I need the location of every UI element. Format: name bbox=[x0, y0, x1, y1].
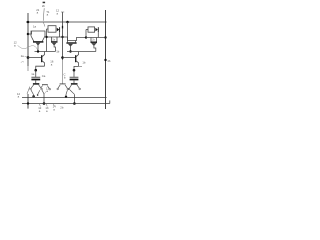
transistor Q1a bar bbox=[51, 41, 58, 43]
transistor Q3a collector circle bbox=[41, 88, 43, 90]
svg-text:1b: 1b bbox=[56, 50, 60, 54]
wire T2b emitter to cap node bbox=[74, 66, 79, 70]
wire left bottom vertical bbox=[27, 94, 29, 109]
svg-text:Ca: Ca bbox=[42, 74, 46, 78]
transistor Q4b base bar bbox=[71, 83, 78, 85]
wire box R1b left lead bbox=[86, 29, 88, 31]
transistor T2b bar bbox=[75, 55, 77, 62]
node junction dot Q3b rail1 bbox=[65, 96, 67, 98]
node junction dot A1 bbox=[27, 33, 30, 36]
node junction dot cap C1b top bbox=[73, 69, 76, 72]
svg-text:a: a bbox=[53, 109, 55, 112]
node junction dot right bus mid bbox=[104, 59, 106, 61]
wire diode drop bbox=[59, 32, 61, 37]
svg-text:a: a bbox=[57, 13, 59, 16]
transistor Q3b emitter circle bbox=[57, 88, 59, 90]
wire Q3a inner slant bbox=[38, 90, 40, 94]
svg-text:a: a bbox=[47, 14, 49, 17]
wire rail feed down bbox=[67, 22, 69, 41]
transistor Q3b collector slant bbox=[65, 85, 67, 89]
node junction dot center bus W bbox=[61, 36, 63, 38]
svg-text:2b: 2b bbox=[60, 106, 64, 110]
wire base line T2a bbox=[28, 57, 41, 59]
label leader ticks bottom bbox=[39, 104, 40, 106]
diode D1b bar bbox=[97, 27, 99, 32]
transistor Q4b right slant bbox=[77, 85, 79, 88]
transistor T1a emitter slant bbox=[42, 36, 45, 41]
svg-text:2b: 2b bbox=[92, 37, 95, 41]
transistor Q4a left slant bbox=[41, 86, 43, 89]
transistor Q3b emitter slant bbox=[58, 85, 60, 88]
wire base line T2b bbox=[63, 57, 76, 59]
transistor T1a mirror top loop bbox=[31, 31, 45, 36]
wire bottom rail 2 bbox=[22, 103, 110, 105]
label wavy leader to node bbox=[18, 45, 38, 50]
node junction dot W1 left bbox=[45, 36, 47, 38]
wire T1b emitter lead bbox=[70, 46, 72, 51]
transistor Q4a base bar bbox=[42, 84, 48, 86]
transistor T1a collector slant bbox=[31, 36, 34, 41]
wire cap C1b upper lead bbox=[73, 70, 75, 77]
node junction dot top rail right feed bbox=[66, 21, 69, 24]
node junction dot left bottom bbox=[27, 102, 29, 104]
tick top of center bus bbox=[61, 11, 64, 13]
node junction dot right bus W bbox=[104, 36, 106, 38]
wire mid rail A bbox=[35, 51, 56, 53]
wire Q3a lower slant to rail bbox=[31, 90, 34, 95]
label leader top bbox=[43, 8, 44, 21]
diode D1a bar bbox=[59, 27, 61, 32]
wire Q1b emitter hook bbox=[94, 46, 96, 52]
label tilde small left bbox=[21, 61, 24, 64]
transistor Q4a right slant bbox=[47, 86, 49, 89]
svg-text:2a: 2a bbox=[52, 37, 55, 41]
transistor Q1a legs bbox=[51, 37, 53, 41]
node junction dot T1b emitter bbox=[69, 50, 71, 52]
label tilde to B1 bbox=[25, 55, 28, 58]
wire W1 node line bbox=[47, 36, 63, 38]
node junction dot left bus / rail bbox=[27, 21, 30, 24]
wire Q4a vertical to rail2 bbox=[43, 94, 45, 104]
svg-text:a: a bbox=[18, 96, 20, 99]
node tick on center bus bbox=[62, 26, 64, 29]
wire cap C1b lower lead bbox=[73, 80, 75, 83]
transistor Q4b left slant bbox=[69, 85, 71, 88]
wire T1a feed from left bus bbox=[28, 31, 32, 34]
wire box R1b left drop bbox=[85, 30, 87, 38]
wire center vertical bus bbox=[62, 12, 64, 60]
svg-text:4b: 4b bbox=[107, 59, 111, 63]
transistor Q3a base bar bbox=[33, 83, 39, 85]
label tilde QB bbox=[44, 91, 46, 94]
node junction dot B1 bbox=[27, 56, 30, 59]
capacitor C1a plate 2 bbox=[31, 79, 40, 81]
wire left vertical bus bbox=[27, 13, 29, 66]
transistor T1a base bar bbox=[33, 41, 43, 43]
node junction dot Q4b rail2 bbox=[73, 102, 76, 105]
wire T1a emitter lead bbox=[37, 45, 39, 51]
svg-text:a: a bbox=[47, 90, 49, 93]
node junction dot W2 bbox=[85, 36, 87, 38]
transistor Q3b base bar bbox=[60, 83, 66, 85]
transistor Q3b collector circle bbox=[67, 88, 69, 90]
wire rail 2 end hook bbox=[109, 100, 111, 103]
resistor box R1b bbox=[88, 27, 95, 32]
label FIG mark bbox=[43, 2, 46, 4]
capacitor C1b plate 1 bbox=[70, 76, 79, 78]
svg-text:a: a bbox=[14, 45, 16, 48]
transistor T2b emitter slant bbox=[76, 61, 78, 67]
capacitor C1b plate 2 bbox=[70, 79, 79, 81]
transistor Q3a emitter circle bbox=[30, 88, 32, 90]
wire bottom rail 1 bbox=[22, 97, 107, 99]
transistor Q4a right circle bbox=[49, 88, 51, 90]
transistor Q1b legs bbox=[90, 38, 92, 42]
wire box left drop bbox=[46, 29, 48, 52]
transistor T1b arrow bbox=[69, 44, 73, 46]
svg-text:2b: 2b bbox=[42, 4, 46, 8]
transistor T1a arrow bbox=[36, 43, 40, 45]
svg-text:a: a bbox=[39, 110, 41, 113]
wire Q4a lead slant bbox=[42, 90, 44, 94]
resistor box R1a bbox=[48, 26, 56, 33]
transistor Q1b arrow bbox=[92, 43, 96, 45]
svg-text:1a: 1a bbox=[33, 25, 37, 29]
svg-text:a: a bbox=[51, 63, 53, 66]
transistor T2a bar bbox=[41, 55, 43, 62]
wire top supply rail bbox=[26, 21, 107, 23]
svg-text:1a: 1a bbox=[21, 54, 25, 58]
node junction dot Q4a rail2 bbox=[43, 102, 46, 105]
svg-text:b: b bbox=[64, 76, 66, 80]
wire W2 right bbox=[86, 37, 106, 39]
wire T2a emitter to cap node bbox=[36, 66, 45, 70]
wire Q4b lower slant bbox=[70, 90, 74, 94]
node junction dot center bus base bbox=[61, 56, 64, 59]
svg-text:1a: 1a bbox=[31, 72, 35, 76]
svg-text:a: a bbox=[46, 110, 48, 113]
diode D1b arrow bbox=[95, 28, 97, 32]
svg-text:a: a bbox=[37, 12, 39, 15]
transistor T2b collector lead bbox=[76, 52, 78, 57]
capacitor C1a plate 1 bbox=[31, 76, 40, 78]
wire right vertical bus bbox=[105, 10, 107, 109]
wire label stub right bbox=[79, 65, 83, 67]
transistor Q1b bar bbox=[91, 41, 98, 43]
transistor T2a collector slant bbox=[42, 52, 44, 57]
transistor T1b legs bbox=[67, 41, 69, 43]
wire D1b drop bbox=[97, 32, 99, 38]
wire label leader 12a bbox=[27, 87, 30, 94]
transistor Q1a arrow bbox=[52, 43, 56, 45]
transistor Q3a emitter slant bbox=[31, 85, 34, 89]
label leader below rail bbox=[43, 22, 45, 27]
wire Q4b vertical to rail2 bbox=[73, 94, 75, 103]
node junction dot cap C1a top bbox=[34, 69, 37, 72]
node junction dot on rail1 bbox=[32, 95, 35, 98]
wire cap C1a lower lead bbox=[35, 80, 37, 83]
transistor Q3a collector slant bbox=[39, 85, 42, 89]
transistor T2a emitter slant bbox=[42, 61, 44, 66]
svg-text:1b: 1b bbox=[82, 61, 86, 65]
wire Q1a emitter lead bbox=[54, 45, 55, 51]
wire cap C1a upper lead bbox=[35, 70, 37, 77]
wire box left lead bbox=[47, 28, 49, 30]
wire W2 jog bbox=[63, 37, 87, 41]
wire Q3b lower lead bbox=[66, 90, 67, 94]
transistor T1b bar bbox=[66, 42, 76, 44]
wire mid rail B bbox=[67, 51, 96, 53]
diode D1a arrow bbox=[57, 28, 59, 32]
node junction dot T1a emitter bbox=[37, 50, 39, 52]
